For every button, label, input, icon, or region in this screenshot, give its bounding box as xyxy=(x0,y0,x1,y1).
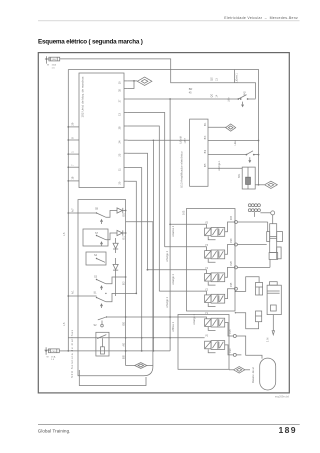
wire pin 11 branch xyxy=(128,168,142,351)
switch B42 xyxy=(238,95,246,99)
svg-text:Esquema elétrico ( segunda mar: Esquema elétrico ( segunda marcha ) xyxy=(38,39,143,46)
diode D3 vertical xyxy=(115,238,117,243)
valve Y5 output xyxy=(225,222,235,232)
restrictor valve V-A xyxy=(256,283,263,296)
svg-text:B/E: B/E xyxy=(123,321,125,325)
valve Y4 feed wire xyxy=(148,270,207,274)
svg-text:P20: P20 xyxy=(230,348,232,353)
air line to reservoir xyxy=(236,336,262,359)
long bus from pin 27 node xyxy=(169,99,171,351)
valve Y4 drain xyxy=(208,282,215,285)
svg-text:LiBl/ws 1: LiBl/ws 1 xyxy=(172,321,175,332)
diode D1 xyxy=(117,208,123,213)
U13 pin B/5 wire xyxy=(208,167,242,169)
svg-text:1 B/T: 1 B/T xyxy=(185,137,187,143)
port P25 xyxy=(234,287,237,290)
svg-text:P23: P23 xyxy=(231,215,233,220)
svg-text:P28: P28 xyxy=(231,261,233,266)
wire pin 20 branch xyxy=(128,181,137,293)
valve block enclosure lower xyxy=(178,315,229,370)
wire A/1 stub xyxy=(68,295,96,297)
switch S4 box xyxy=(86,252,106,265)
svg-text:LiGe/ws 1: LiGe/ws 1 xyxy=(172,225,175,237)
svg-text:(30): (30) xyxy=(52,351,56,353)
svg-text:LiSw/ge 1: LiSw/ge 1 xyxy=(166,250,169,262)
wire pin 25 branch xyxy=(128,153,148,270)
valve Y3 drain xyxy=(208,259,215,262)
svg-text:P15: P15 xyxy=(230,329,232,334)
valve Y5 feed wire xyxy=(170,224,206,228)
cylinder Z1 lower step xyxy=(277,247,281,259)
svg-text:LiGn/ge 1: LiGn/ge 1 xyxy=(218,160,221,171)
svg-text:B41: B41 xyxy=(238,173,241,178)
U13 pin B/2 wire with switch B41 contact xyxy=(208,154,246,156)
valve Y2 output xyxy=(225,289,235,299)
air line P26 to cylinder xyxy=(237,244,266,246)
wire pin 35 joins pin 10 xyxy=(128,81,134,89)
S1 output wire xyxy=(106,293,136,301)
connector X3 diamond xyxy=(265,181,278,188)
outer housing bottom line xyxy=(79,370,146,386)
svg-text:(30): (30) xyxy=(52,59,56,61)
shift rod with tip xyxy=(272,315,274,335)
port P28 xyxy=(234,266,237,269)
svg-text:189: 189 xyxy=(278,425,297,435)
svg-text:Global Training.: Global Training. xyxy=(38,428,71,433)
air line P28 xyxy=(237,266,270,268)
cylinder Z1 foot xyxy=(269,253,278,260)
svg-text:15 A: 15 A xyxy=(51,355,56,358)
svg-text:103: 103 xyxy=(181,210,185,215)
shift cylinder Z2 lower seat xyxy=(271,305,277,311)
wire W1 battery feed xyxy=(60,59,256,99)
svg-text:102 Unid. de bloq. de marchas: 102 Unid. de bloq. de marchas xyxy=(80,76,84,117)
valve Y6 drain xyxy=(208,349,215,352)
solenoid valve Y4 xyxy=(205,274,212,282)
air pipe to shift cylinder xyxy=(235,277,259,292)
svg-text:A/E: A/E xyxy=(122,342,125,346)
wire pin 24 to amplifier U13 xyxy=(128,139,190,141)
svg-text:QG: QG xyxy=(211,77,214,81)
wire to connector X4 xyxy=(126,365,135,367)
valve Y1 drain xyxy=(208,327,215,330)
switch B41 blade xyxy=(246,151,253,155)
unit 102 left pins xyxy=(68,126,79,128)
air pipe lower xyxy=(235,313,258,329)
fuse F1 (terminal 30 top left) xyxy=(45,56,50,63)
port P23 xyxy=(234,221,237,224)
S2 output wire feeds valve Y1 xyxy=(106,317,206,319)
svg-text:Reserv. de ar: Reserv. de ar xyxy=(251,367,255,383)
connector X6 diamond xyxy=(229,369,234,371)
port P26 xyxy=(234,243,237,246)
S3 output wire xyxy=(106,277,126,284)
diode D4 vertical xyxy=(115,258,117,264)
selector unit S29 Seletora de marchas box xyxy=(78,200,153,376)
air line P23 to cylinder xyxy=(237,221,267,223)
switch S7 box xyxy=(83,229,108,246)
diode D2 xyxy=(117,230,123,235)
svg-text:QG: QG xyxy=(211,94,214,98)
wire A/7 stub xyxy=(68,212,96,214)
svg-text:B/B: B/B xyxy=(123,355,125,359)
wire pin 10 to connector xyxy=(128,80,138,82)
diagram frame xyxy=(38,53,289,393)
wire B41 to connector xyxy=(255,184,264,186)
svg-text:LiGe/bl: LiGe/bl xyxy=(181,136,183,144)
svg-text:1 N: 1 N xyxy=(266,338,270,342)
shift cylinder Z2 body xyxy=(267,285,281,314)
connector X1 diamond xyxy=(137,77,152,85)
svg-text:LiGe/rt 1: LiGe/rt 1 xyxy=(235,73,238,83)
unit 102 right pin labels xyxy=(124,80,128,82)
air reservoir xyxy=(260,358,276,390)
wire W2 terminal 15 feed xyxy=(68,70,258,185)
valve Y6 output to port P20 xyxy=(225,345,234,355)
header rule xyxy=(38,20,300,22)
cylinder Z1 body xyxy=(270,224,277,253)
interlock solenoid box xyxy=(96,332,109,356)
supply wire bottom xyxy=(68,350,170,352)
valve Y2 feed wire xyxy=(159,291,206,295)
wire grid to cylinder port xyxy=(260,212,270,214)
bus from pin 24 down xyxy=(152,140,154,351)
wire pin 27 to switch B42 xyxy=(128,98,239,100)
solenoid coil xyxy=(101,347,105,354)
svg-text:S29 Seletora de marchas: S29 Seletora de marchas xyxy=(70,329,74,378)
solenoid feed wire / valve Y6 feed xyxy=(68,337,204,339)
pressure switch B41 box xyxy=(242,167,255,189)
control unit 102 Unid. de bloq. de marchas xyxy=(79,73,124,188)
cylinder Z1 piston lines xyxy=(270,236,277,238)
connector X4 diamond xyxy=(135,363,147,369)
svg-text:B42: B42 xyxy=(243,91,246,96)
air line port P20 branch xyxy=(236,354,241,356)
cylinder Z1 left tab xyxy=(267,232,270,242)
amplifier U13 xyxy=(190,119,208,186)
cylinder Z1 right tab xyxy=(277,232,283,242)
port P20 xyxy=(233,353,236,356)
svg-text:P26: P26 xyxy=(231,238,233,243)
svg-text:P25: P25 xyxy=(231,282,233,287)
valve block 103 enclosure upper xyxy=(187,209,236,312)
shift cylinder Z2 top cap xyxy=(270,282,278,286)
valve Y3 feed wire xyxy=(165,247,207,251)
shift cylinder Z2 piston xyxy=(267,290,280,292)
terminal block X5 grid xyxy=(248,204,251,207)
solenoid valve Y2 xyxy=(205,295,212,303)
U13 pin B/3 wire to feed bus xyxy=(208,140,259,142)
U13 pin B/1 and connector xyxy=(208,126,226,128)
wire pin 13 branch xyxy=(128,113,165,247)
fuse F2 (terminal 30 bottom left) xyxy=(45,347,50,354)
svg-text:15 A: 15 A xyxy=(52,64,57,67)
S7 output wire to diode xyxy=(106,233,117,240)
connector X2 diamond xyxy=(226,124,236,131)
valve Y4 output xyxy=(225,267,235,277)
solenoid valve Y1 xyxy=(205,319,212,327)
svg-text:LiGe/ge 1: LiGe/ge 1 xyxy=(193,314,196,325)
port P15 xyxy=(233,335,236,338)
footer rule xyxy=(38,424,300,426)
svg-text:LiGe: LiGe xyxy=(234,140,237,146)
solenoid valve Y6 xyxy=(205,341,212,349)
svg-text:LiSw/gn 1: LiSw/gn 1 xyxy=(166,296,169,308)
solenoid valve Y5 xyxy=(205,228,212,236)
solenoid valve Y3 xyxy=(205,251,212,259)
cylinder Z1 top port xyxy=(271,211,275,215)
B41 coil xyxy=(246,177,251,184)
fuse F2 wire xyxy=(59,350,68,352)
valve Y1 output to port P15 xyxy=(225,323,234,337)
wire stub LiGe/rt 1 xyxy=(233,70,235,83)
svg-text:LiGr: LiGr xyxy=(228,97,231,102)
restrictor valve V-B xyxy=(256,311,262,322)
svg-text:Eletricidade Veicular – Mer: Eletricidade Veicular – Mercedes-Benz xyxy=(224,16,298,20)
valve Y2 drain xyxy=(208,303,215,306)
svg-text:esq269e.dsf: esq269e.dsf xyxy=(275,395,289,399)
S8 output wire to diode xyxy=(106,211,117,218)
svg-text:U13 Amplificador eletrônico: U13 Amplificador eletrônico xyxy=(180,151,184,188)
solenoid contact blade xyxy=(98,335,107,339)
svg-text:LiGe/gn 1: LiGe/gn 1 xyxy=(172,274,175,285)
valve Y3 output xyxy=(225,245,235,255)
terminal bus BL xyxy=(125,222,127,366)
wire pin 28 branch xyxy=(128,126,160,291)
valve Y5 drain xyxy=(208,236,215,239)
